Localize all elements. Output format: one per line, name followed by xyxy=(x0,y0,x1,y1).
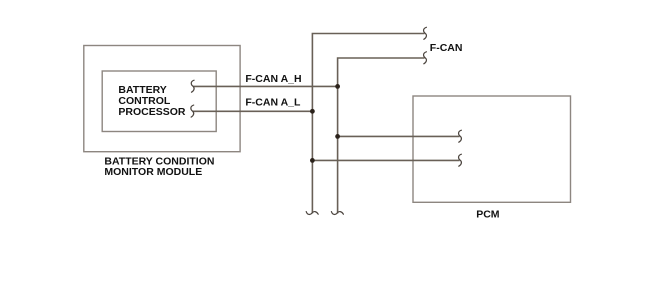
svg-text:F-CAN A_H: F-CAN A_H xyxy=(245,73,301,85)
svg-text:PCM: PCM xyxy=(476,208,500,220)
svg-text:F-CAN A_L: F-CAN A_L xyxy=(245,97,301,109)
svg-text:MONITOR MODULE: MONITOR MODULE xyxy=(104,166,202,178)
svg-text:F-CAN: F-CAN xyxy=(430,42,463,54)
svg-text:PROCESSOR: PROCESSOR xyxy=(118,106,186,118)
